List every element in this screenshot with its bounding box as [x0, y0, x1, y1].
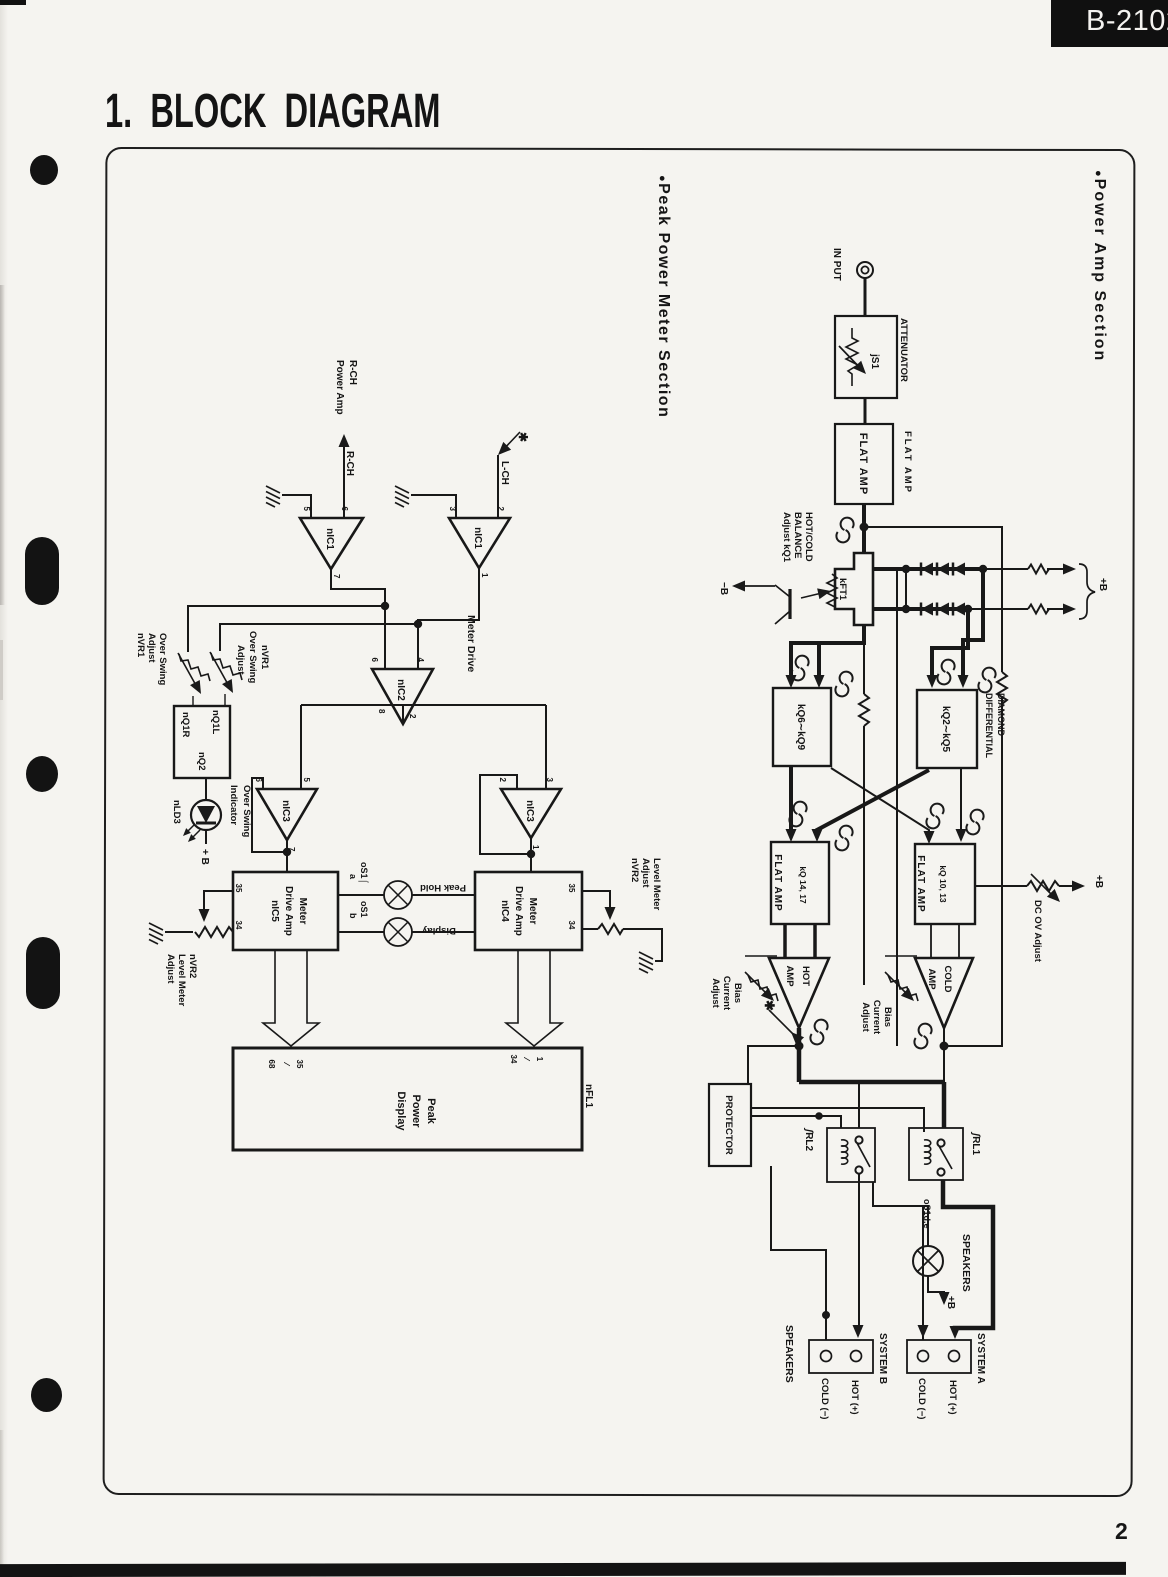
svg-text:DIAMOND: DIAMOND — [996, 693, 1006, 736]
svg-text:SPEAKERS: SPEAKERS — [783, 1325, 795, 1383]
svg-text:Display: Display — [421, 925, 456, 936]
svg-text:Power: Power — [410, 1094, 422, 1128]
svg-text:8: 8 — [377, 709, 386, 714]
svg-text:1: 1 — [535, 1057, 544, 1062]
svg-text:34: 34 — [509, 1055, 518, 1064]
svg-text:nVR2: nVR2 — [629, 858, 640, 882]
svg-text:kQ6∼kQ9: kQ6∼kQ9 — [795, 704, 806, 751]
svg-text:nLD3: nLD3 — [171, 800, 182, 824]
svg-text:Peak: Peak — [425, 1098, 437, 1125]
svg-text:Bias: Bias — [732, 983, 743, 1003]
svg-text:3: 3 — [448, 507, 457, 512]
svg-text:Adjust: Adjust — [146, 633, 157, 663]
svg-text:kQ 14, 17: kQ 14, 17 — [798, 866, 808, 904]
svg-text:⁄: ⁄ — [522, 1056, 531, 1061]
svg-text:SYSTEM B: SYSTEM B — [877, 1333, 888, 1384]
svg-text:6: 6 — [370, 658, 379, 663]
svg-text:HOT/COLD: HOT/COLD — [803, 512, 814, 562]
svg-text:2: 2 — [496, 507, 505, 512]
svg-text:⁄: ⁄ — [282, 1061, 291, 1066]
svg-text:COLD (−): COLD (−) — [916, 1378, 927, 1419]
svg-text:nQ1L: nQ1L — [210, 710, 221, 734]
svg-text:+B: +B — [1093, 875, 1104, 888]
svg-text:b: b — [348, 913, 358, 919]
svg-text:ʃRL1: ʃRL1 — [970, 1131, 981, 1156]
svg-text:Meter: Meter — [527, 898, 538, 925]
svg-text:COLD: COLD — [942, 966, 953, 993]
svg-text:FLAT AMP: FLAT AMP — [772, 854, 783, 911]
svg-text:2: 2 — [408, 714, 417, 719]
svg-text:Level Meter: Level Meter — [176, 954, 187, 1007]
svg-text:34: 34 — [234, 921, 243, 930]
svg-text:6: 6 — [254, 778, 263, 783]
svg-text:Drive Amp: Drive Amp — [283, 886, 294, 936]
svg-text:kFT1: kFT1 — [837, 578, 848, 601]
svg-text:6: 6 — [340, 507, 349, 512]
svg-text:7: 7 — [287, 847, 296, 852]
svg-text:✱: ✱ — [762, 1000, 777, 1011]
svg-text:nIC3: nIC3 — [524, 800, 535, 822]
svg-text:Meter Drive: Meter Drive — [465, 615, 477, 672]
svg-text:+B: +B — [945, 1296, 956, 1309]
svg-text:nIC1: nIC1 — [472, 527, 483, 549]
svg-text:68: 68 — [267, 1060, 276, 1069]
svg-text:Display: Display — [395, 1091, 407, 1131]
svg-text:7: 7 — [332, 574, 341, 579]
svg-text:5: 5 — [302, 507, 311, 512]
svg-text:−B: −B — [718, 582, 729, 595]
svg-text:Current: Current — [871, 1000, 882, 1035]
svg-text:HOT: HOT — [800, 966, 811, 986]
svg-text:Adjust: Adjust — [640, 858, 651, 888]
svg-text:●Power Amp Section: ●Power Amp Section — [1091, 170, 1108, 362]
svg-text:Level Meter: Level Meter — [651, 858, 662, 911]
svg-text:2: 2 — [498, 778, 507, 783]
svg-text:nVR1: nVR1 — [259, 645, 270, 670]
svg-text:nIC3: nIC3 — [280, 800, 291, 822]
svg-text:oS1⌠: oS1⌠ — [358, 862, 369, 884]
svg-text:a: a — [348, 874, 358, 880]
svg-text:HOT (+): HOT (+) — [947, 1380, 958, 1415]
svg-text:nFL1: nFL1 — [583, 1084, 594, 1108]
svg-text:34: 34 — [567, 921, 576, 930]
svg-text:AMP: AMP — [926, 968, 937, 990]
svg-text:L-CH: L-CH — [499, 461, 510, 485]
svg-text:Drive Amp: Drive Amp — [513, 886, 524, 936]
svg-text:✱: ✱ — [516, 432, 530, 442]
svg-text:3: 3 — [545, 778, 554, 783]
svg-text:SYSTEM A: SYSTEM A — [975, 1333, 986, 1384]
svg-text:Adjust: Adjust — [235, 645, 246, 675]
svg-text:Over Swing: Over Swing — [157, 633, 168, 685]
svg-text:Over Swing: Over Swing — [247, 631, 258, 683]
svg-text:FLAT AMP: FLAT AMP — [857, 433, 869, 495]
svg-text:DIFFERENTIAL: DIFFERENTIAL — [984, 693, 994, 758]
svg-text:kQ2∼kQ5: kQ2∼kQ5 — [940, 706, 951, 753]
svg-text:nIC5: nIC5 — [269, 900, 280, 922]
svg-text:ʃRL2: ʃRL2 — [803, 1127, 814, 1152]
svg-text:35: 35 — [567, 884, 576, 893]
svg-text:Peak Hold: Peak Hold — [420, 882, 466, 893]
svg-text:BALANCE: BALANCE — [792, 512, 803, 558]
svg-text:PROTECTOR: PROTECTOR — [723, 1095, 734, 1155]
svg-text:+B: +B — [1097, 578, 1108, 591]
svg-text:Adjust: Adjust — [710, 978, 721, 1008]
svg-text:+ B: + B — [199, 849, 210, 865]
svg-text:AMP: AMP — [784, 965, 795, 987]
svg-text:35: 35 — [234, 884, 243, 893]
svg-text:COLD (−): COLD (−) — [819, 1378, 830, 1419]
svg-text:nVR2: nVR2 — [187, 954, 198, 978]
svg-text:4: 4 — [416, 658, 425, 663]
svg-text:nQ1R: nQ1R — [180, 712, 191, 737]
svg-text:kQ 10, 13: kQ 10, 13 — [938, 865, 948, 903]
svg-text:nQ2: nQ2 — [196, 752, 207, 770]
svg-text:Adjust kQ1: Adjust kQ1 — [781, 512, 792, 563]
svg-text:FLAT AMP: FLAT AMP — [902, 431, 913, 494]
svg-text:Meter: Meter — [297, 898, 308, 925]
svg-text:Current: Current — [721, 976, 732, 1011]
svg-text:●Peak Power Meter Section: ●Peak Power Meter Section — [655, 175, 672, 418]
svg-text:IN PUT: IN PUT — [831, 248, 842, 281]
svg-text:nIC4: nIC4 — [499, 900, 510, 922]
svg-text:nIC1: nIC1 — [324, 528, 335, 550]
svg-text:R-CH: R-CH — [347, 360, 358, 385]
svg-text:Bias: Bias — [882, 1007, 893, 1027]
svg-text:5: 5 — [302, 778, 311, 783]
svg-text:FLAT AMP: FLAT AMP — [915, 855, 926, 912]
svg-text:HOT (+): HOT (+) — [849, 1380, 860, 1415]
svg-text:SPEAKERS: SPEAKERS — [960, 1234, 972, 1292]
svg-text:ATTENUATOR: ATTENUATOR — [898, 318, 909, 382]
svg-text:nVR1: nVR1 — [135, 633, 146, 658]
svg-text:oS1d,e: oS1d,e — [922, 1199, 932, 1229]
svg-text:Over Swing: Over Swing — [241, 785, 252, 837]
svg-text:Adjust: Adjust — [165, 954, 176, 984]
svg-text:jS1: jS1 — [869, 353, 880, 369]
svg-text:R-CH: R-CH — [344, 451, 355, 476]
svg-text:35: 35 — [295, 1060, 304, 1069]
svg-text:1: 1 — [531, 845, 540, 850]
svg-text:DC OV Adjust: DC OV Adjust — [1032, 900, 1043, 963]
svg-text:nIC2: nIC2 — [395, 679, 406, 701]
svg-text:oS1: oS1 — [359, 901, 369, 918]
svg-text:Indicator: Indicator — [228, 785, 239, 825]
svg-text:1: 1 — [480, 573, 489, 578]
svg-text:Power Amp: Power Amp — [334, 360, 345, 415]
svg-text:Adjust: Adjust — [860, 1002, 871, 1032]
